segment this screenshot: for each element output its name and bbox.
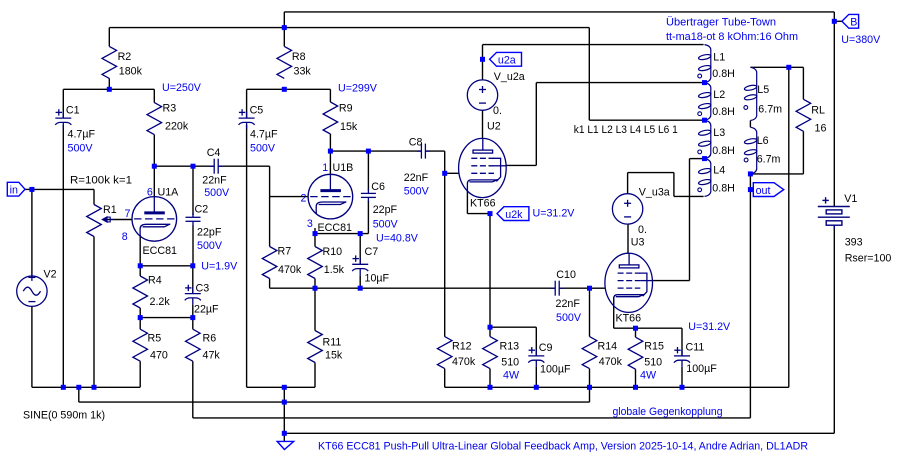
junction L1 L2 tap	[702, 80, 707, 85]
wire C7 top lead	[359, 234, 361, 265]
wire to transformer center tap	[589, 119, 704, 121]
svg-text:U=31.2V: U=31.2V	[533, 208, 576, 220]
capacitor C7	[352, 255, 368, 275]
svg-text:22nF: 22nF	[202, 174, 227, 186]
wire u3a jog down	[673, 173, 675, 197]
wire to L1 L2 tap	[536, 82, 704, 84]
svg-text:1.5k: 1.5k	[324, 264, 345, 276]
wire C11 bottom lead	[681, 367, 683, 387]
svg-text:4W: 4W	[640, 369, 657, 381]
capacitor C10	[551, 281, 564, 296]
svg-text:R8: R8	[292, 51, 306, 63]
svg-text:2: 2	[301, 192, 307, 204]
resistor R6	[186, 329, 201, 361]
svg-text:KT66 ECC81 Push-Pull Ultra-Lin: KT66 ECC81 Push-Pull Ultra-Linear Global…	[318, 440, 808, 452]
junction u2k	[488, 211, 493, 216]
wire U2 grid to R12	[444, 173, 446, 336]
wire C9 top lead	[535, 327, 537, 356]
resistor R4	[133, 276, 148, 308]
wire C2 bottom lead	[192, 225, 194, 265]
wire ground rail mid	[247, 386, 315, 388]
wire U2 cathode lead	[466, 191, 468, 214]
wire u3a jog top	[628, 172, 674, 174]
svg-text:U=40.8V: U=40.8V	[376, 233, 419, 245]
wire to V2 plus	[31, 189, 33, 276]
wire R1 bottom to ground	[93, 237, 95, 388]
svg-text:500V: 500V	[197, 240, 223, 252]
wire C5 top lead	[246, 89, 248, 118]
wire u2k node	[467, 213, 490, 215]
junction R15 ground	[633, 385, 638, 390]
wire in flag stub	[25, 188, 32, 190]
triode U1A (ECC81)	[132, 197, 177, 242]
svg-text:C11: C11	[686, 341, 705, 353]
wire C7 bottom lead	[359, 275, 361, 288]
wire V_u3a top lead	[627, 173, 629, 194]
wire C10 right	[559, 287, 589, 289]
svg-text:C9: C9	[539, 342, 553, 354]
svg-text:0.8H: 0.8H	[712, 106, 735, 118]
svg-text:33k: 33k	[294, 66, 312, 78]
wire R2 top lead	[108, 28, 110, 47]
resistor R8	[277, 46, 292, 78]
junction R10 R11	[313, 286, 318, 291]
svg-text:U=250V: U=250V	[162, 82, 202, 94]
svg-text:Rser=100: Rser=100	[845, 253, 892, 265]
wire B flag stub	[834, 20, 842, 22]
svg-text:V_u2a: V_u2a	[494, 71, 525, 83]
svg-text:22µF: 22µF	[194, 303, 219, 315]
resistor R9	[323, 102, 338, 134]
svg-text:C5: C5	[250, 105, 264, 117]
wire V_u2a top lead	[482, 59, 484, 80]
wire U2 g2 out	[506, 164, 536, 166]
capacitor C5	[239, 109, 255, 129]
svg-text:470: 470	[150, 350, 168, 362]
inductor L1	[698, 45, 711, 83]
junction C7 bottom	[358, 286, 363, 291]
inductor L4	[698, 159, 711, 197]
wire U3 cathode lead	[613, 297, 615, 328]
svg-text:22pF: 22pF	[197, 226, 222, 238]
junction C9 ground	[534, 385, 539, 390]
wire C8 right	[425, 150, 444, 152]
svg-text:k1 L1 L2 L3 L4 L5 L6 1: k1 L1 L2 L3 L4 L5 L6 1	[574, 124, 678, 136]
wire u3k node	[614, 327, 682, 329]
svg-text:470k: 470k	[452, 356, 476, 368]
svg-text:15k: 15k	[340, 121, 358, 133]
junction C6 top	[366, 149, 371, 154]
svg-text:ECC81: ECC81	[143, 245, 178, 257]
wire R6 to feedback rail	[192, 361, 194, 418]
junction in	[29, 187, 34, 192]
svg-text:470k: 470k	[278, 264, 302, 276]
wire C5 to ground	[246, 125, 248, 387]
resistor R15	[628, 337, 643, 369]
wire C4 right to U1B grid node	[218, 165, 269, 167]
wire U3 g2 out	[653, 280, 690, 282]
svg-text:4.7µF: 4.7µF	[250, 129, 278, 141]
wire C4 left	[193, 165, 214, 167]
wire ground rail right	[445, 386, 789, 388]
wire R1 wiper to U1A grid	[105, 219, 133, 221]
junction U3 grid	[587, 286, 592, 291]
junction R13 C9	[488, 325, 493, 330]
svg-text:0.8H: 0.8H	[712, 182, 735, 194]
svg-text:L3: L3	[713, 127, 725, 139]
svg-text:4.7µF: 4.7µF	[68, 129, 96, 141]
wire to L3 L4 tap	[690, 158, 705, 160]
junction C4 C2	[191, 164, 196, 169]
wire RL top lead	[802, 67, 804, 99]
wire C6 bottom lead	[367, 201, 369, 234]
svg-text:500V: 500V	[373, 218, 399, 230]
junction U1A cathode	[138, 263, 143, 268]
svg-text:1: 1	[322, 162, 328, 174]
svg-text:R14: R14	[598, 340, 618, 352]
svg-text:7: 7	[125, 208, 131, 220]
triode U1B (ECC81)	[308, 174, 353, 219]
svg-text:L6: L6	[757, 135, 769, 147]
wire to U2 g1	[445, 172, 459, 174]
wire ground jog right	[589, 387, 591, 402]
wire U2 cathode down	[489, 214, 491, 328]
svg-text:U=380V: U=380V	[841, 34, 881, 46]
wire U1B plate to C6	[330, 150, 368, 152]
svg-text:3: 3	[307, 218, 313, 230]
svg-text:510: 510	[644, 357, 662, 369]
wire down to U1B grid	[269, 166, 271, 196]
wire C3 top lead	[192, 266, 194, 294]
resistor R5	[133, 329, 148, 361]
svg-text:22pF: 22pF	[373, 204, 398, 216]
junction u2a	[480, 57, 485, 62]
voltage source V2 (sine)	[17, 274, 47, 307]
svg-text:500V: 500V	[204, 187, 230, 199]
capacitor C2	[186, 213, 201, 226]
svg-text:0.: 0.	[638, 224, 647, 236]
wire R7 top lead	[269, 197, 271, 247]
wire R15 bottom lead	[635, 369, 637, 387]
resistor R13	[483, 337, 498, 369]
svg-text:22nF: 22nF	[404, 172, 429, 184]
svg-text:R5: R5	[148, 333, 162, 345]
capacitor C4	[210, 159, 223, 174]
wire R10 top lead	[314, 234, 316, 247]
svg-text:0.8H: 0.8H	[712, 145, 735, 157]
svg-text:R3: R3	[163, 102, 177, 114]
svg-text:R13: R13	[500, 340, 520, 352]
wire secondary top	[750, 66, 803, 68]
svg-text:C2: C2	[195, 204, 209, 216]
svg-text:100µF: 100µF	[540, 364, 571, 376]
svg-text:U=299V: U=299V	[338, 82, 378, 94]
wire U1B cathode lead	[314, 228, 316, 234]
phase dot L3	[698, 150, 702, 154]
svg-text:6.7m: 6.7m	[758, 104, 782, 116]
junction L3 L4 tap	[702, 156, 707, 161]
wire R13 top lead	[489, 327, 491, 336]
svg-text:R=100k k=1: R=100k k=1	[70, 175, 132, 187]
net flag u2k	[497, 207, 529, 221]
wire in to R1	[32, 188, 94, 190]
wire V1 return rail	[284, 432, 834, 434]
junction R2 bottom	[107, 87, 112, 92]
svg-text:6: 6	[147, 186, 153, 198]
svg-text:180k: 180k	[119, 66, 143, 78]
svg-text:B: B	[850, 17, 857, 29]
svg-text:22nF: 22nF	[556, 298, 581, 310]
resistor R10	[308, 247, 323, 279]
wire R3 top lead	[153, 89, 155, 102]
junction C3 R6	[190, 315, 195, 320]
junction ground rail2	[282, 400, 287, 405]
svg-text:R6: R6	[203, 333, 217, 345]
wire R3 to U1A plate	[153, 135, 155, 167]
wire R9 bottom lead	[329, 134, 331, 151]
junction R14 ground	[587, 385, 592, 390]
junction mid ground	[282, 385, 287, 390]
wire C3 bottom lead	[192, 305, 194, 318]
pentode U3 (KT66)	[605, 253, 653, 312]
resistor R7	[262, 247, 277, 279]
phase dot L1	[698, 74, 702, 78]
wire R12 bottom lead	[444, 369, 446, 388]
junction C7 top	[358, 231, 363, 236]
wire to C8 left	[368, 150, 421, 152]
svg-text:100µF: 100µF	[686, 363, 717, 375]
wire ground jog left	[78, 387, 80, 402]
svg-text:RL: RL	[811, 105, 825, 117]
svg-text:Übertrager Tube-Town: Übertrager Tube-Town	[666, 17, 776, 29]
wire out flag stub	[750, 189, 753, 191]
wire V1 minus down	[833, 225, 835, 433]
svg-text:KT66: KT66	[470, 197, 496, 209]
wire to C9	[490, 326, 536, 328]
svg-text:in: in	[10, 185, 18, 197]
wire U1A plate lead	[153, 166, 155, 197]
voltage source V_u2a	[467, 80, 497, 110]
wire C2 top lead	[192, 166, 194, 215]
wire bias rail to C10	[270, 287, 555, 289]
wire R8 top	[283, 12, 285, 47]
wire g2 tap up	[535, 83, 537, 166]
wire R2 bottom lead	[108, 78, 110, 89]
svg-text:47k: 47k	[203, 350, 221, 362]
svg-text:SINE(0 590m 1k): SINE(0 590m 1k)	[23, 409, 105, 421]
wire to L4 bottom	[674, 195, 704, 197]
wire R14 bottom lead	[589, 369, 591, 388]
wire node U1A plate to C4	[154, 165, 193, 167]
junction U1B plate	[328, 149, 333, 154]
port flag out	[753, 183, 783, 197]
wire V_u3a to U3 plate	[627, 224, 629, 253]
wire C11 top lead	[681, 328, 683, 356]
svg-text:6.7m: 6.7m	[757, 154, 781, 166]
svg-text:0.8H: 0.8H	[712, 68, 735, 80]
svg-text:4W: 4W	[503, 369, 520, 381]
wire V2 minus to ground	[31, 307, 33, 388]
svg-text:U=1.9V: U=1.9V	[201, 261, 238, 273]
svg-text:C7: C7	[365, 246, 379, 258]
svg-text:KT66: KT66	[616, 312, 642, 324]
wire R4 bottom lead	[139, 308, 141, 318]
svg-text:R10: R10	[323, 246, 343, 258]
wire V_u2a to U2 plate	[482, 110, 484, 138]
svg-text:500V: 500V	[68, 142, 94, 154]
wire C1 top lead	[62, 89, 64, 118]
junction R8 bottom	[282, 87, 287, 92]
ground symbol	[277, 441, 294, 449]
svg-text:L4: L4	[713, 165, 725, 177]
junction out	[748, 187, 753, 192]
wire L5 to L6	[749, 121, 751, 128]
resistor R11	[308, 331, 323, 363]
potentiometer arrow R1	[102, 217, 114, 222]
svg-text:u2k: u2k	[505, 209, 523, 221]
wire B+ down to V1	[833, 12, 835, 207]
junction R1 ground	[92, 385, 97, 390]
svg-text:470k: 470k	[599, 356, 623, 368]
resistor R1 (potentiometer)	[87, 205, 102, 237]
wire node 250V	[63, 88, 154, 90]
capacitor C8	[417, 144, 430, 159]
svg-text:500V: 500V	[404, 185, 430, 197]
wire g2 tap up	[689, 159, 691, 281]
svg-text:500V: 500V	[556, 312, 582, 324]
wire to U1B g	[270, 196, 309, 198]
svg-text:globale Gegenkopplung: globale Gegenkopplung	[613, 406, 723, 418]
svg-text:C1: C1	[66, 105, 80, 117]
junction L6 RL bottom	[748, 171, 753, 176]
resistor R3	[147, 103, 162, 135]
svg-text:R11: R11	[323, 337, 342, 349]
junction R13 ground	[488, 385, 493, 390]
wire u2a node up	[482, 45, 484, 60]
inductor L3	[698, 120, 711, 158]
svg-text:R9: R9	[339, 102, 353, 114]
svg-text:C4: C4	[207, 147, 221, 159]
capacitor C3	[185, 285, 201, 305]
svg-text:U1B: U1B	[333, 162, 354, 174]
svg-text:C6: C6	[371, 181, 385, 193]
wire C6 top lead	[367, 151, 369, 190]
wire R15 top lead	[635, 328, 637, 337]
wire ground rail 2	[79, 401, 590, 403]
svg-text:ECC81: ECC81	[318, 222, 353, 234]
wire R4 C3 bottom node	[140, 317, 193, 319]
inductor L6	[744, 127, 757, 174]
junction ground jog	[76, 385, 81, 390]
junction U1B cathode	[313, 231, 318, 236]
svg-text:500V: 500V	[250, 142, 276, 154]
capacitor C11	[674, 347, 690, 367]
resistor R14	[582, 337, 597, 369]
wire C9 bottom lead	[535, 367, 537, 387]
wire ground stem	[283, 387, 285, 441]
svg-text:V2: V2	[44, 269, 57, 281]
svg-text:R1: R1	[103, 204, 117, 216]
svg-text:16: 16	[815, 123, 827, 135]
wire U1A cathode lead	[139, 235, 141, 266]
svg-text:U3: U3	[631, 236, 645, 248]
phase dot L5	[744, 106, 748, 110]
junction L5 RL top	[786, 65, 791, 70]
battery V1	[818, 197, 850, 229]
junction R15 u3k	[633, 326, 638, 331]
wire down to CT	[588, 28, 590, 121]
junction center tap	[702, 118, 707, 123]
port flag in	[7, 182, 25, 196]
wire node 299V	[247, 88, 331, 90]
wire C1 to ground	[62, 125, 64, 387]
svg-text:tt-ma18-ot 8 kOhm:16 Ohm: tt-ma18-ot 8 kOhm:16 Ohm	[666, 31, 798, 43]
wire to U3 g1	[590, 287, 606, 289]
svg-text:u2a: u2a	[498, 55, 516, 67]
wire down to U2 grid	[444, 151, 446, 173]
wire R4 top lead	[139, 266, 141, 276]
junction B	[832, 19, 837, 24]
pentode U2 (KT66)	[459, 138, 507, 197]
phase dot L6	[744, 158, 748, 162]
svg-text:R2: R2	[118, 51, 132, 63]
inductor L5	[744, 67, 757, 120]
resistor R2	[102, 46, 117, 78]
svg-text:C8: C8	[409, 136, 423, 148]
svg-text:V_u3a: V_u3a	[639, 186, 670, 198]
resistor RL	[796, 99, 811, 131]
capacitor C6	[361, 189, 376, 202]
svg-text:0.: 0.	[493, 105, 502, 117]
svg-text:C10: C10	[556, 269, 576, 281]
phase dot L2	[698, 112, 702, 116]
junction C3 top	[190, 263, 195, 268]
wire U1B plate lead	[329, 151, 331, 174]
wire ground rail left	[32, 386, 140, 388]
phase dot L4	[698, 188, 702, 192]
wire R5 bottom lead	[139, 361, 141, 387]
svg-text:8: 8	[122, 231, 128, 243]
svg-text:R4: R4	[148, 274, 162, 286]
svg-text:R15: R15	[644, 341, 664, 353]
resistor R12	[437, 337, 452, 369]
junction C1 ground	[61, 385, 66, 390]
junction R4 R5	[138, 315, 143, 320]
wire R13 bottom lead	[489, 369, 491, 388]
svg-text:V1: V1	[844, 193, 857, 205]
svg-text:R12: R12	[452, 340, 472, 352]
svg-text:out: out	[756, 185, 771, 197]
svg-text:R7: R7	[278, 245, 292, 257]
svg-text:15k: 15k	[325, 349, 343, 361]
svg-text:510: 510	[501, 356, 519, 368]
wire supply rail to R2 R8	[109, 27, 589, 29]
wire R10 bottom lead	[314, 279, 316, 289]
net flag B	[842, 14, 859, 28]
capacitor C9	[528, 347, 544, 367]
capacitor C1	[55, 109, 71, 129]
junction B+ rail	[282, 25, 287, 30]
wire global feedback rail	[193, 417, 751, 419]
net flag u2a	[490, 52, 522, 66]
svg-text:U=31.2V: U=31.2V	[688, 321, 731, 333]
svg-text:L5: L5	[757, 84, 769, 96]
wire R11 bottom lead	[314, 363, 316, 388]
svg-text:U2: U2	[487, 120, 501, 132]
wire U1B cathode node	[315, 233, 368, 235]
wire U1A cathode node	[140, 265, 193, 267]
svg-text:2.2k: 2.2k	[150, 296, 171, 308]
